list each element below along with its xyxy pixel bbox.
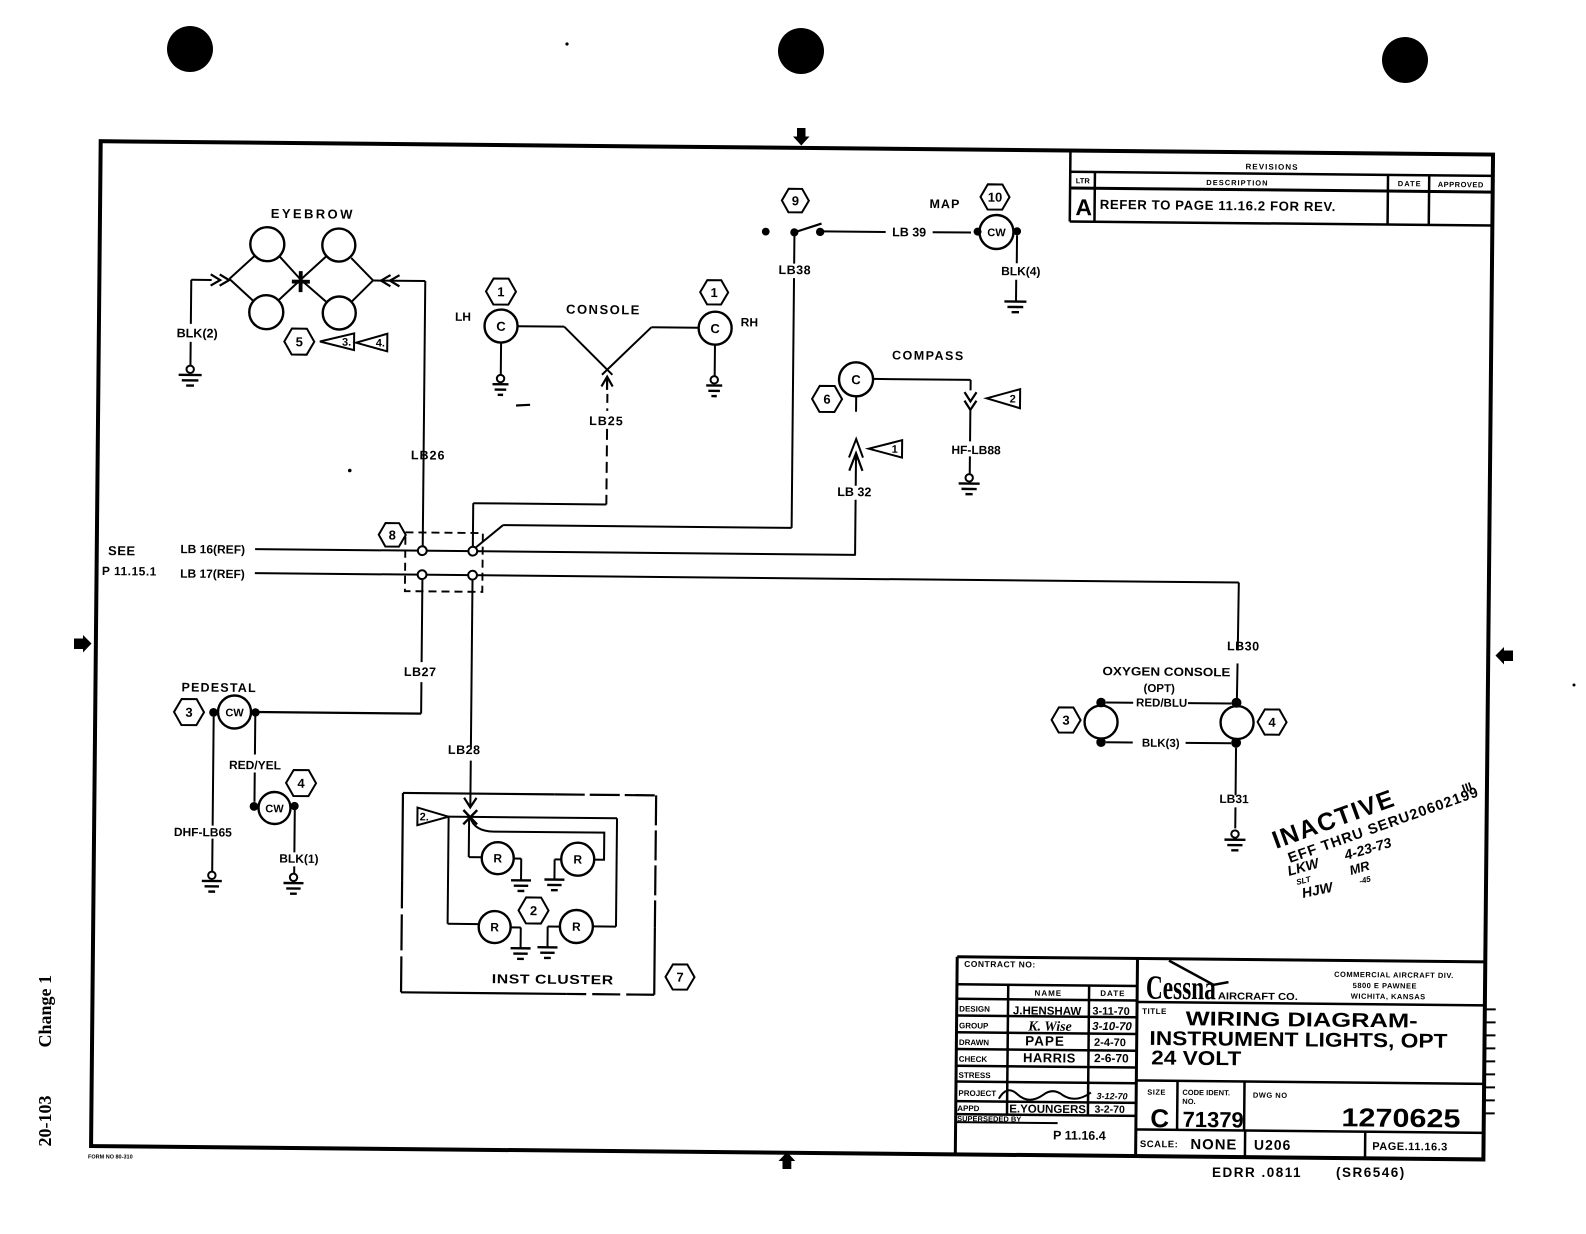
scale row — [1136, 1129, 1484, 1132]
svg-text:HARRIS: HARRIS — [1023, 1050, 1076, 1066]
svg-text:FORM NO 80-310: FORM NO 80-310 — [88, 1155, 133, 1161]
svg-text:1270625: 1270625 — [1341, 1102, 1460, 1133]
wire LB25 dashed — [606, 394, 608, 411]
svg-text:DESCRIPTION: DESCRIPTION — [1206, 178, 1268, 188]
wire BLK(3) — [1106, 741, 1133, 743]
registration mark dot right — [1382, 37, 1428, 83]
tick arrow top (pointing down) — [793, 128, 810, 146]
ground bottom-left R — [511, 926, 521, 928]
pedestal lamp dot left — [209, 708, 218, 717]
oxygen right lamp — [1220, 706, 1253, 739]
svg-text:3-11-70: 3-11-70 — [1092, 1006, 1129, 1018]
svg-text:BLK(2): BLK(2) — [177, 326, 218, 340]
svg-text:CONTRACT NO:: CONTRACT NO: — [964, 959, 1036, 970]
wire LB38 vertical — [792, 278, 794, 528]
stray mark dash — [516, 404, 530, 407]
svg-text:BLK(1): BLK(1) — [279, 852, 318, 866]
svg-text:PAGE.11.16.3: PAGE.11.16.3 — [1372, 1141, 1448, 1154]
wire LB28 vertical — [471, 580, 473, 747]
wire RED/BLU — [1106, 701, 1133, 703]
svg-text:LB38: LB38 — [778, 263, 811, 277]
lamp CW pedestal lower — [258, 792, 290, 824]
svg-text:R: R — [493, 851, 502, 865]
svg-text:SUPERSEDED BY: SUPERSEDED BY — [957, 1114, 1021, 1124]
svg-text:COMMERCIAL AIRCRAFT DIV.: COMMERCIAL AIRCRAFT DIV. — [1334, 970, 1454, 980]
svg-text:4: 4 — [297, 776, 305, 791]
lamp C console RH — [698, 312, 731, 345]
svg-text:COMPASS: COMPASS — [892, 348, 965, 363]
pedestal lower lamp dot left — [250, 802, 259, 811]
svg-text:APPROVED: APPROVED — [1438, 180, 1484, 189]
junction plus at eyebrow center — [299, 271, 303, 292]
lamp C console LH — [484, 309, 517, 342]
callout hexagon 5 — [284, 328, 314, 354]
map lamp dot left — [974, 228, 982, 236]
pedestal lamp dot right — [251, 708, 259, 716]
svg-text:RED/YEL: RED/YEL — [229, 758, 281, 772]
svg-text:3: 3 — [185, 705, 192, 720]
svg-text:LB 17(REF): LB 17(REF) — [180, 567, 245, 582]
switch common dot — [790, 228, 798, 236]
svg-text:4: 4 — [1268, 715, 1276, 730]
wire LB17 row — [255, 573, 1239, 582]
registration mark dot left — [167, 26, 213, 72]
svg-text:(OPT): (OPT) — [1143, 683, 1175, 695]
svg-text:DHF-LB65: DHF-LB65 — [174, 825, 232, 840]
svg-text:EDRR .0811: EDRR .0811 — [1212, 1165, 1302, 1180]
callout hexagon 3 oxygen — [1051, 707, 1080, 732]
chevrons down to HF-LB88 — [964, 392, 976, 401]
lamp CW pedestal — [218, 695, 251, 728]
lamp C compass — [839, 362, 873, 396]
connector arrow at console V — [601, 377, 612, 387]
callout hexagon 9 — [782, 189, 809, 213]
svg-text:2-4-70: 2-4-70 — [1094, 1037, 1126, 1049]
chevrons right side of eyebrow — [381, 275, 391, 286]
svg-text:WICHITA, KANSAS: WICHITA, KANSAS — [1351, 992, 1426, 1002]
ground LH console lamp — [497, 375, 504, 382]
svg-text:SEE: SEE — [108, 543, 136, 558]
ground compass — [965, 474, 972, 481]
svg-text:CONSOLE: CONSOLE — [566, 302, 641, 318]
svg-text:20-103: 20-103 — [35, 1096, 55, 1147]
svg-text:71379: 71379 — [1182, 1107, 1243, 1133]
callout hexagon 4 pedestal — [286, 770, 316, 796]
pedestal lower lamp dot right — [290, 802, 298, 810]
svg-text:MAP: MAP — [929, 197, 960, 211]
svg-text:REFER TO PAGE 11.16.2 FOR REV: REFER TO PAGE 11.16.2 FOR REV. — [1100, 197, 1336, 214]
svg-text:NO.: NO. — [1182, 1097, 1195, 1106]
wire LB16 row — [255, 549, 856, 555]
svg-text:PROJECT: PROJECT — [958, 1089, 996, 1098]
svg-text:2: 2 — [530, 903, 537, 918]
wire BLK(4) down — [1016, 235, 1018, 263]
oxygen left lamp dot bottom — [1096, 737, 1106, 747]
junction X at inst cluster entry — [463, 810, 477, 824]
callout hexagon 4 oxygen — [1257, 709, 1286, 734]
connector pin 1 — [418, 546, 427, 555]
wire from eyebrow to LB26 corner — [373, 280, 425, 283]
svg-text:U206: U206 — [1254, 1137, 1292, 1153]
svg-text:LB25: LB25 — [589, 414, 624, 428]
svg-text:3-2-70: 3-2-70 — [1094, 1104, 1125, 1116]
lamp R bottom-left — [479, 911, 511, 943]
svg-text:CW: CW — [987, 227, 1006, 239]
svg-text:5: 5 — [296, 334, 303, 349]
switch lever — [794, 223, 821, 232]
svg-text:LTR: LTR — [1076, 176, 1091, 185]
svg-text:LB26: LB26 — [411, 448, 446, 462]
connector pin 3 — [418, 570, 427, 579]
svg-text:LB 32: LB 32 — [837, 485, 871, 499]
svg-text:PEDESTAL: PEDESTAL — [181, 680, 256, 695]
svg-text:3: 3 — [1062, 713, 1069, 728]
callout triangle 3 — [320, 333, 354, 350]
ground top-right R — [555, 858, 562, 860]
connector chevrons LB32 to compass — [849, 439, 863, 458]
svg-text:CODE IDENT.: CODE IDENT. — [1182, 1088, 1230, 1097]
wire BLK(1) down — [293, 810, 295, 852]
switch output dot — [816, 228, 824, 236]
callout triangle 4 — [356, 333, 387, 351]
lamp R bottom-right — [560, 910, 593, 943]
svg-text:1: 1 — [497, 284, 504, 299]
lamp eyebrow lower-right — [323, 296, 356, 329]
wire to top-left R lamp — [468, 817, 470, 857]
svg-text:STRESS: STRESS — [959, 1071, 992, 1080]
svg-text:SCALE:: SCALE: — [1140, 1139, 1178, 1150]
svg-text:(SR6546): (SR6546) — [1336, 1165, 1406, 1180]
callout triangle 2 at cluster (points right) — [417, 808, 448, 826]
ground pedestal left — [208, 872, 215, 879]
svg-text:10: 10 — [988, 190, 1003, 205]
svg-text:LB31: LB31 — [1219, 792, 1249, 806]
svg-text:LH: LH — [455, 310, 471, 324]
speck dot — [348, 469, 352, 473]
wire LB39 — [823, 230, 885, 233]
wire RED/YEL vertical — [254, 717, 256, 755]
svg-text:GROUP: GROUP — [959, 1021, 989, 1030]
lamp eyebrow upper-right — [322, 228, 355, 261]
callout hexagon 7 — [665, 964, 694, 989]
svg-text:REVISIONS: REVISIONS — [1245, 162, 1298, 172]
wire DHF-LB65 down — [213, 717, 214, 826]
svg-text:HF-LB88: HF-LB88 — [951, 443, 1001, 457]
wire console LH to V point — [518, 325, 565, 327]
svg-text:SIZE: SIZE — [1147, 1088, 1166, 1097]
speck dots — [565, 42, 568, 45]
svg-text:P 11.16.4: P 11.16.4 — [1053, 1128, 1106, 1143]
svg-text:J.HENSHAW: J.HENSHAW — [1013, 1005, 1082, 1018]
svg-text:DATE: DATE — [1100, 989, 1125, 998]
svg-text:24 VOLT: 24 VOLT — [1151, 1047, 1241, 1070]
wire to bottom-left R lamp — [448, 817, 449, 924]
svg-text:CHECK: CHECK — [959, 1055, 988, 1064]
name date table columns — [1007, 985, 1008, 1115]
wire compass lamp stem down — [855, 397, 857, 412]
oxygen left lamp dot top — [1096, 698, 1106, 708]
wire down to compass ground — [969, 410, 971, 441]
svg-text:NAME: NAME — [1035, 989, 1063, 998]
svg-text:DESIGN: DESIGN — [959, 1004, 990, 1013]
connector pin 4 — [468, 571, 477, 580]
callout hexagon 8 — [379, 523, 406, 547]
eyebrow diamond wires — [229, 255, 254, 279]
svg-text:AIRCRAFT CO.: AIRCRAFT CO. — [1218, 991, 1298, 1003]
wire console RH to V point — [602, 327, 651, 375]
callout hexagon 6 — [812, 386, 842, 412]
callout hexagon 1 (RH) — [700, 280, 728, 304]
svg-text:Change 1: Change 1 — [35, 975, 55, 1048]
svg-text:RED/BLU: RED/BLU — [1136, 697, 1187, 709]
title block outline — [957, 957, 1485, 962]
svg-text:DATE: DATE — [1398, 179, 1422, 188]
svg-text:3-10-70: 3-10-70 — [1092, 1021, 1132, 1033]
junction box dashed outline — [405, 532, 483, 592]
svg-text:P 11.15.1: P 11.15.1 — [102, 564, 157, 579]
lamp R top-right — [561, 843, 594, 876]
svg-text:R: R — [490, 920, 499, 934]
wire compass to HF-LB88 — [873, 378, 971, 381]
svg-text:LB27: LB27 — [404, 665, 437, 679]
ground RH console lamp — [711, 376, 718, 383]
oxygen left lamp — [1084, 705, 1117, 738]
title row divider — [1137, 1002, 1485, 1005]
svg-text:9: 9 — [792, 193, 799, 208]
cluster feed wire top — [447, 817, 617, 819]
switch open contact dot — [762, 228, 770, 236]
callout hexagon 10 — [980, 184, 1009, 209]
wire to top-right R lamp — [470, 817, 605, 860]
lamp eyebrow upper-left — [250, 227, 284, 261]
map lamp dot right — [1013, 227, 1021, 235]
svg-text:2-6-70: 2-6-70 — [1094, 1051, 1129, 1065]
svg-text:8: 8 — [389, 527, 396, 542]
svg-text:5800 E PAWNEE: 5800 E PAWNEE — [1353, 981, 1417, 991]
svg-text:2.: 2. — [420, 811, 429, 823]
svg-text:R: R — [572, 920, 581, 934]
svg-text:OXYGEN CONSOLE: OXYGEN CONSOLE — [1102, 664, 1230, 679]
ground map lamp — [1004, 300, 1026, 303]
connector pin 2 — [468, 547, 477, 556]
inst cluster outer box — [403, 793, 555, 794]
svg-text:CW: CW — [265, 803, 284, 815]
wire LB32 vertical — [855, 453, 857, 485]
svg-text:C: C — [851, 372, 861, 387]
wire to bottom-right R lamp — [616, 818, 617, 926]
tick arrow bottom (pointing up) — [779, 1152, 796, 1169]
svg-text:4.: 4. — [376, 337, 385, 349]
wire LB27 vertical — [421, 579, 424, 662]
lamp eyebrow lower-left — [249, 295, 283, 329]
oxygen right lamp dot bottom — [1231, 738, 1241, 748]
ground oxygen console — [1231, 830, 1238, 837]
svg-text:CW: CW — [225, 707, 244, 719]
lamp R top-left — [482, 842, 514, 874]
wire LB31 down — [1235, 748, 1237, 796]
callout hexagon 3 pedestal — [174, 699, 204, 725]
svg-text:BLK(4): BLK(4) — [1001, 264, 1040, 278]
svg-text:C: C — [710, 321, 720, 336]
svg-text:1: 1 — [710, 285, 717, 300]
tick arrow right (pointing left) — [1496, 647, 1514, 665]
svg-text:APPD: APPD — [957, 1104, 980, 1113]
svg-text:LB 16(REF): LB 16(REF) — [180, 542, 245, 557]
wire LB26 vertical — [423, 281, 426, 546]
callout hexagon 2 in cluster — [518, 897, 548, 923]
svg-text:LB28: LB28 — [448, 743, 481, 757]
registration mark dot center — [778, 28, 824, 74]
svg-text:A: A — [1075, 194, 1092, 220]
svg-text:2: 2 — [1010, 394, 1016, 406]
svg-text:LB30: LB30 — [1227, 639, 1260, 653]
svg-text:EYEBROW: EYEBROW — [271, 206, 355, 222]
svg-text:NONE: NONE — [1190, 1137, 1237, 1153]
drawing border frame — [91, 141, 1493, 1159]
svg-text:DRAWN: DRAWN — [959, 1038, 990, 1047]
svg-text:DWG NO: DWG NO — [1253, 1091, 1288, 1100]
svg-text:3.: 3. — [342, 337, 351, 349]
oxygen right lamp dot top — [1231, 698, 1241, 708]
ground top-left R — [514, 857, 521, 859]
wire RH lamp to ground — [714, 345, 716, 376]
contract no box — [957, 984, 1137, 986]
ground bottom-right R — [548, 926, 560, 928]
name date table rows — [957, 999, 1137, 1001]
svg-text:7: 7 — [676, 970, 683, 985]
ground for BLK(2) — [186, 366, 193, 373]
svg-text:TITLE: TITLE — [1142, 1007, 1167, 1016]
callout hexagon 1 (LH) — [486, 278, 516, 304]
ground pedestal right — [290, 874, 297, 881]
svg-text:1: 1 — [892, 444, 898, 456]
svg-text:C: C — [496, 319, 506, 334]
callout triangle 2 at compass — [987, 389, 1021, 408]
svg-text:R: R — [573, 852, 582, 866]
tick arrow left (pointing right) — [74, 635, 92, 653]
wire LB27 horizontal — [256, 712, 422, 714]
lamp CW map — [979, 215, 1013, 249]
wire BLK(2) feed with chevrons — [191, 279, 211, 281]
callout triangle 1 at LB32 — [869, 440, 903, 458]
binding tick marks right edge — [1486, 1008, 1496, 1010]
svg-text:6: 6 — [823, 392, 830, 407]
svg-text:3-12-70: 3-12-70 — [1097, 1091, 1128, 1101]
revisions table — [1069, 152, 1072, 221]
wire BLK(2) down to ground — [190, 280, 192, 324]
handwritten EFF THRU SERU20602199 III — [1284, 778, 1482, 867]
arrow chevron LB28 into cluster — [464, 798, 476, 808]
svg-text:INST CLUSTER: INST CLUSTER — [492, 971, 614, 987]
svg-text:BLK(3): BLK(3) — [1142, 738, 1180, 750]
wire LH lamp to ground — [500, 343, 502, 375]
size code dwg row — [1136, 1080, 1484, 1083]
svg-text:RH: RH — [741, 315, 758, 329]
wire LB30 vertical — [1238, 583, 1239, 651]
svg-text:LB 39: LB 39 — [892, 225, 926, 239]
wire diagonal from pin 2 to LB38 run — [475, 525, 503, 549]
svg-text:PAPE: PAPE — [1025, 1033, 1065, 1048]
